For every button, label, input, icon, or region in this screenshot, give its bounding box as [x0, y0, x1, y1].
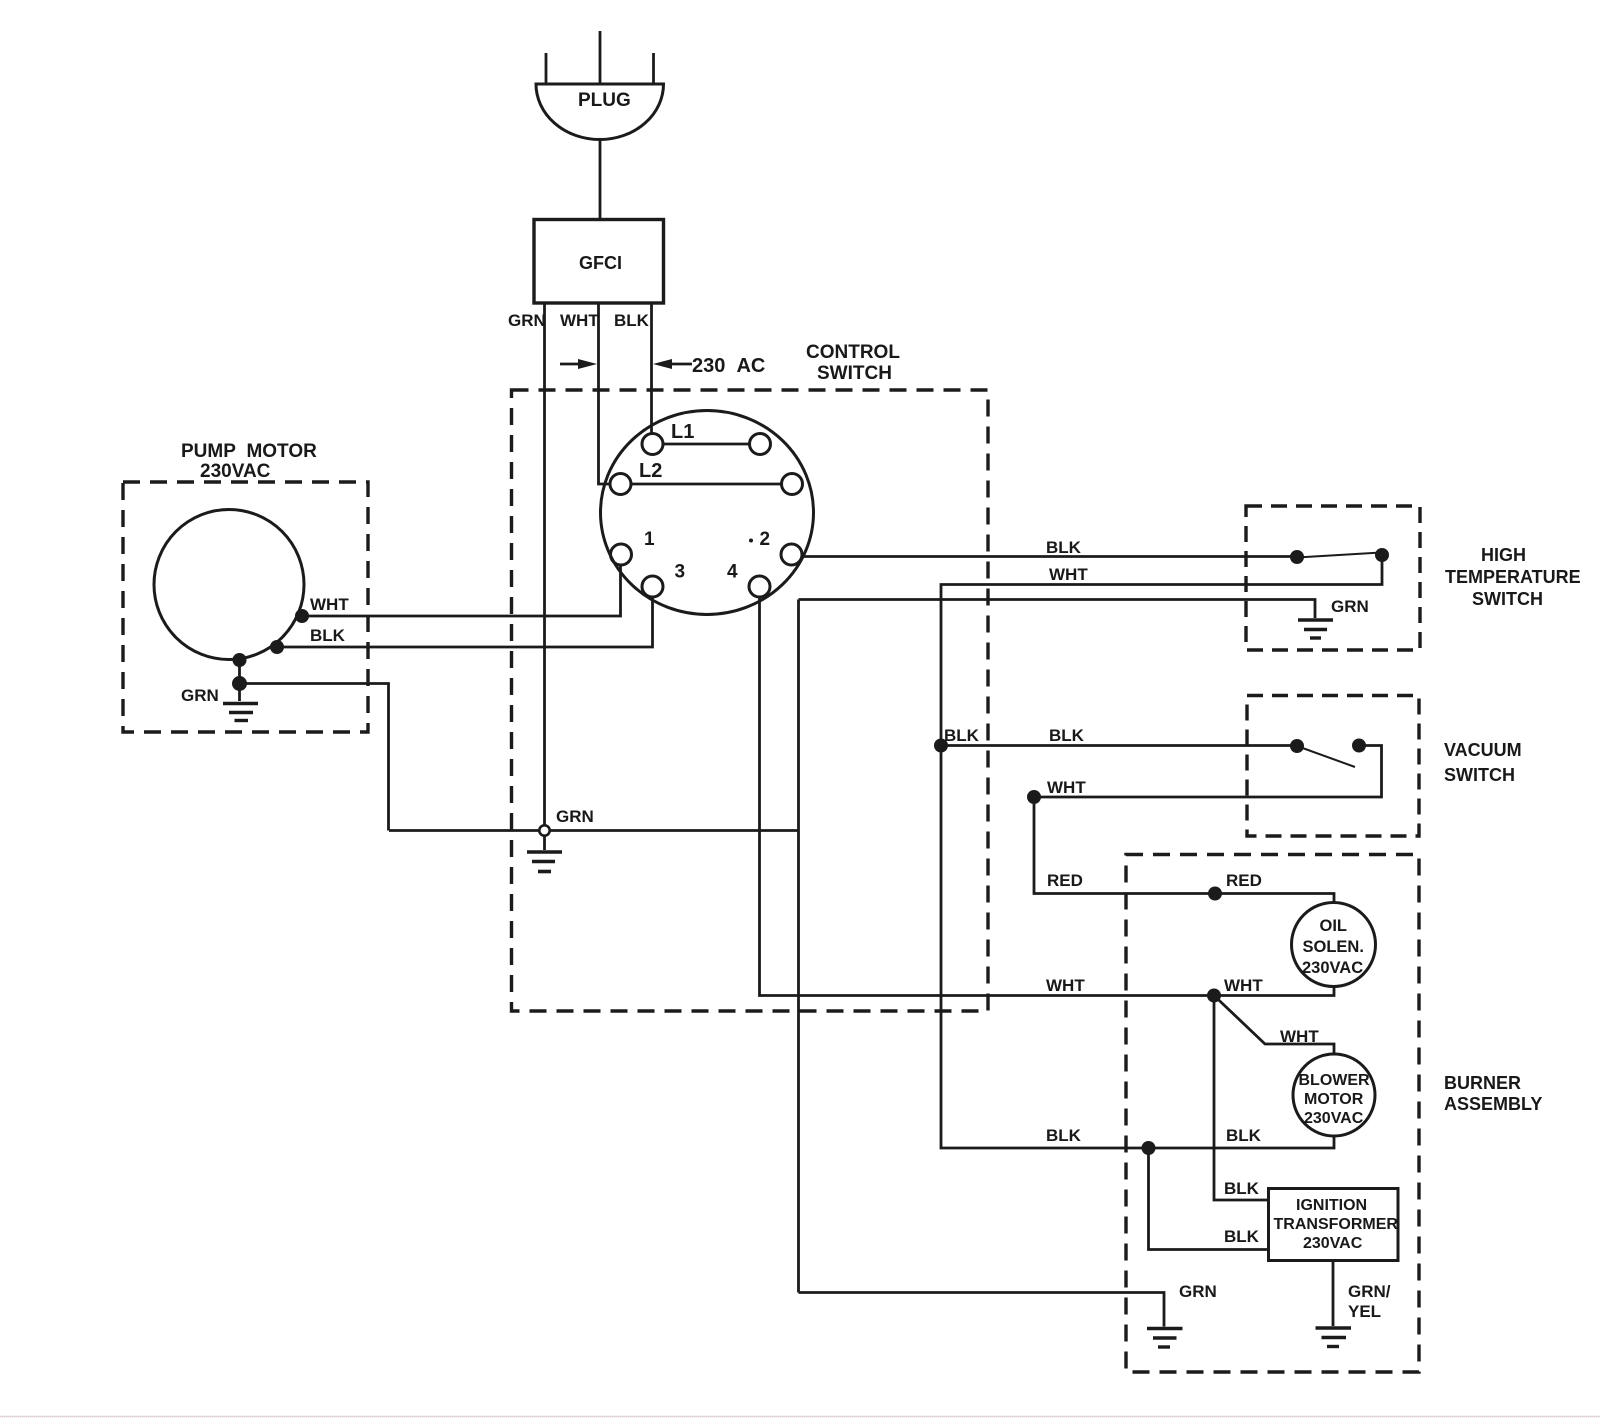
wire WHT high temp return: [941, 556, 1382, 746]
junction dot RED: [1208, 887, 1222, 901]
ground pump motor: [223, 704, 258, 721]
wire BLK terminal 2 to high temperature switch: [802, 555, 1296, 558]
svg-text:230 AC: 230 AC: [692, 355, 765, 377]
terminal 4: [749, 576, 770, 597]
svg-text:BLK: BLK: [1224, 1227, 1260, 1246]
svg-text:BLK: BLK: [1224, 1179, 1260, 1198]
svg-text:3: 3: [675, 562, 686, 583]
plug P1: [536, 31, 664, 140]
svg-text:WHT: WHT: [1280, 1027, 1319, 1046]
terminal 2: [781, 544, 802, 565]
svg-text:4: 4: [727, 562, 738, 583]
terminal L2 left: [610, 474, 631, 495]
svg-text:230VAC: 230VAC: [200, 461, 271, 482]
svg-text:GRN: GRN: [181, 686, 219, 705]
svg-text:CONTROL: CONTROL: [806, 342, 900, 363]
oil solenoid SOL1: [1292, 903, 1376, 987]
svg-text:GRN: GRN: [1331, 597, 1369, 616]
high temp switch blade: [1297, 553, 1381, 558]
svg-text:PLUG: PLUG: [578, 90, 631, 111]
svg-text:BLK: BLK: [1049, 726, 1085, 745]
node GRN (open): [539, 825, 549, 835]
junction dot pump WHT: [295, 609, 309, 623]
svg-text:GFCI: GFCI: [579, 253, 622, 273]
svg-text:230VAC: 230VAC: [1302, 959, 1363, 977]
wire plug to GFCI: [599, 140, 602, 221]
svg-text:BURNER: BURNER: [1444, 1073, 1521, 1093]
wire BLK to vacuum switch: [941, 744, 1296, 747]
svg-text:WHT: WHT: [560, 311, 599, 330]
wire GRN burner: [799, 1293, 1165, 1327]
wire BLK to ignition transformer (lower): [1149, 1148, 1269, 1250]
footer rule (faint): [0, 1416, 1600, 1418]
contact bar L2: [631, 483, 781, 486]
high temperature switch enclosure (dashed): [1246, 506, 1420, 650]
ignition transformer T1: [1269, 1189, 1399, 1261]
svg-text:IGNITION: IGNITION: [1296, 1197, 1367, 1214]
blower motor M2: [1293, 1054, 1375, 1136]
high temp switch contact left: [1290, 550, 1304, 564]
svg-text:ASSEMBLY: ASSEMBLY: [1444, 1094, 1542, 1114]
svg-text:SWITCH: SWITCH: [817, 363, 892, 384]
svg-text:GRN: GRN: [508, 311, 546, 330]
terminal L1 left: [642, 434, 663, 455]
svg-text:BLK: BLK: [614, 311, 650, 330]
junction dot WHT burner: [1207, 989, 1221, 1003]
svg-text:TRANSFORMER: TRANSFORMER: [1274, 1216, 1399, 1233]
wire GRN from GFCI: [543, 303, 546, 826]
vacuum switch contact right: [1352, 739, 1366, 753]
wire WHT pump motor to terminal 1: [302, 565, 621, 617]
wire RED to oil solenoid: [1034, 797, 1334, 903]
pump motor M1: [154, 510, 304, 660]
svg-text:WHT: WHT: [1046, 976, 1085, 995]
svg-text:L2: L2: [639, 460, 662, 482]
terminal L1 right: [750, 434, 771, 455]
pump motor enclosure (dashed): [123, 482, 368, 732]
wire GRN pump motor: [238, 660, 241, 701]
svg-text:WHT: WHT: [1049, 565, 1088, 584]
svg-text:SWITCH: SWITCH: [1444, 765, 1515, 785]
svg-text:MOTOR: MOTOR: [1304, 1091, 1364, 1108]
burner assembly enclosure (dashed): [1126, 855, 1419, 1373]
svg-text:2: 2: [760, 529, 771, 550]
wire GRN/YEL ignition ground: [1332, 1261, 1335, 1327]
control switch enclosure (dashed): [512, 390, 989, 1011]
wire GRN trunk: [797, 600, 800, 1293]
svg-text:BLK: BLK: [1226, 1126, 1262, 1145]
wire WHT vacuum return: [1034, 746, 1382, 798]
ground burner assembly: [1147, 1329, 1183, 1348]
svg-text:GRN: GRN: [1179, 1282, 1217, 1301]
wire BLK trunk to blower motor: [941, 746, 1334, 1149]
svg-text:1: 1: [644, 529, 655, 550]
contact bar L1: [663, 443, 749, 446]
dimension arrow left (to WHT wire): [560, 359, 597, 369]
svg-text:SOLEN.: SOLEN.: [1303, 938, 1364, 956]
terminal L2 right: [782, 474, 803, 495]
junction dot pump GRN top: [233, 653, 247, 667]
terminal 3: [642, 576, 663, 597]
wire WHT from GFCI: [599, 303, 611, 484]
ground GRN node: [527, 836, 562, 872]
GFCI U1: [534, 220, 664, 304]
wire BLK pump motor to terminal 3: [277, 597, 653, 647]
junction dot BLK burner: [1142, 1141, 1156, 1155]
vacuum switch enclosure (dashed): [1247, 696, 1419, 837]
svg-text:L1: L1: [671, 421, 694, 443]
wire WHT to blower motor: [1214, 996, 1334, 1055]
junction dot WHT vacuum: [1027, 790, 1041, 804]
terminal 1: [611, 544, 632, 565]
svg-text:230VAC: 230VAC: [1304, 1110, 1364, 1127]
svg-text:PUMP MOTOR: PUMP MOTOR: [181, 441, 317, 462]
svg-text:SWITCH: SWITCH: [1472, 589, 1543, 609]
svg-text:RED: RED: [1047, 871, 1083, 890]
junction dot BLK vacuum feed: [934, 739, 948, 753]
wire GRN bus to node: [389, 829, 798, 832]
dimension arrow right (to BLK wire): [653, 359, 692, 369]
svg-text:WHT: WHT: [1224, 976, 1263, 995]
high temp switch contact right: [1375, 548, 1389, 562]
junction dot pump GRN branch: [232, 676, 247, 691]
svg-text:YEL: YEL: [1348, 1302, 1381, 1321]
svg-text:BLK: BLK: [944, 726, 980, 745]
wire WHT burner feed (terminal 4): [760, 597, 1335, 996]
svg-text:GRN/: GRN/: [1348, 1282, 1391, 1301]
svg-text:BLK: BLK: [1046, 538, 1082, 557]
junction dot pump BLK: [270, 640, 284, 654]
svg-text:BLOWER: BLOWER: [1299, 1072, 1371, 1089]
svg-text:TEMPERATURE: TEMPERATURE: [1445, 567, 1581, 587]
svg-text:BLK: BLK: [310, 626, 346, 645]
wire GRN high temp: [799, 600, 1316, 619]
svg-text:WHT: WHT: [1047, 778, 1086, 797]
svg-text:230VAC: 230VAC: [1303, 1235, 1363, 1252]
wire BLK from GFCI: [650, 303, 653, 434]
svg-text:GRN: GRN: [556, 807, 594, 826]
svg-text:VACUUM: VACUUM: [1444, 740, 1522, 760]
vacuum switch blade (open): [1297, 746, 1355, 767]
svg-text:RED: RED: [1226, 871, 1262, 890]
svg-text:HIGH: HIGH: [1481, 545, 1526, 565]
control switch rotary body: [601, 411, 814, 615]
svg-text:BLK: BLK: [1046, 1126, 1082, 1145]
svg-text:WHT: WHT: [310, 595, 349, 614]
ground high temp switch: [1298, 620, 1333, 638]
ground ignition transformer: [1316, 1328, 1352, 1347]
svg-text:OIL: OIL: [1320, 917, 1348, 935]
wire BLK to ignition transformer (upper): [1214, 996, 1268, 1201]
vacuum switch contact left: [1290, 739, 1304, 753]
